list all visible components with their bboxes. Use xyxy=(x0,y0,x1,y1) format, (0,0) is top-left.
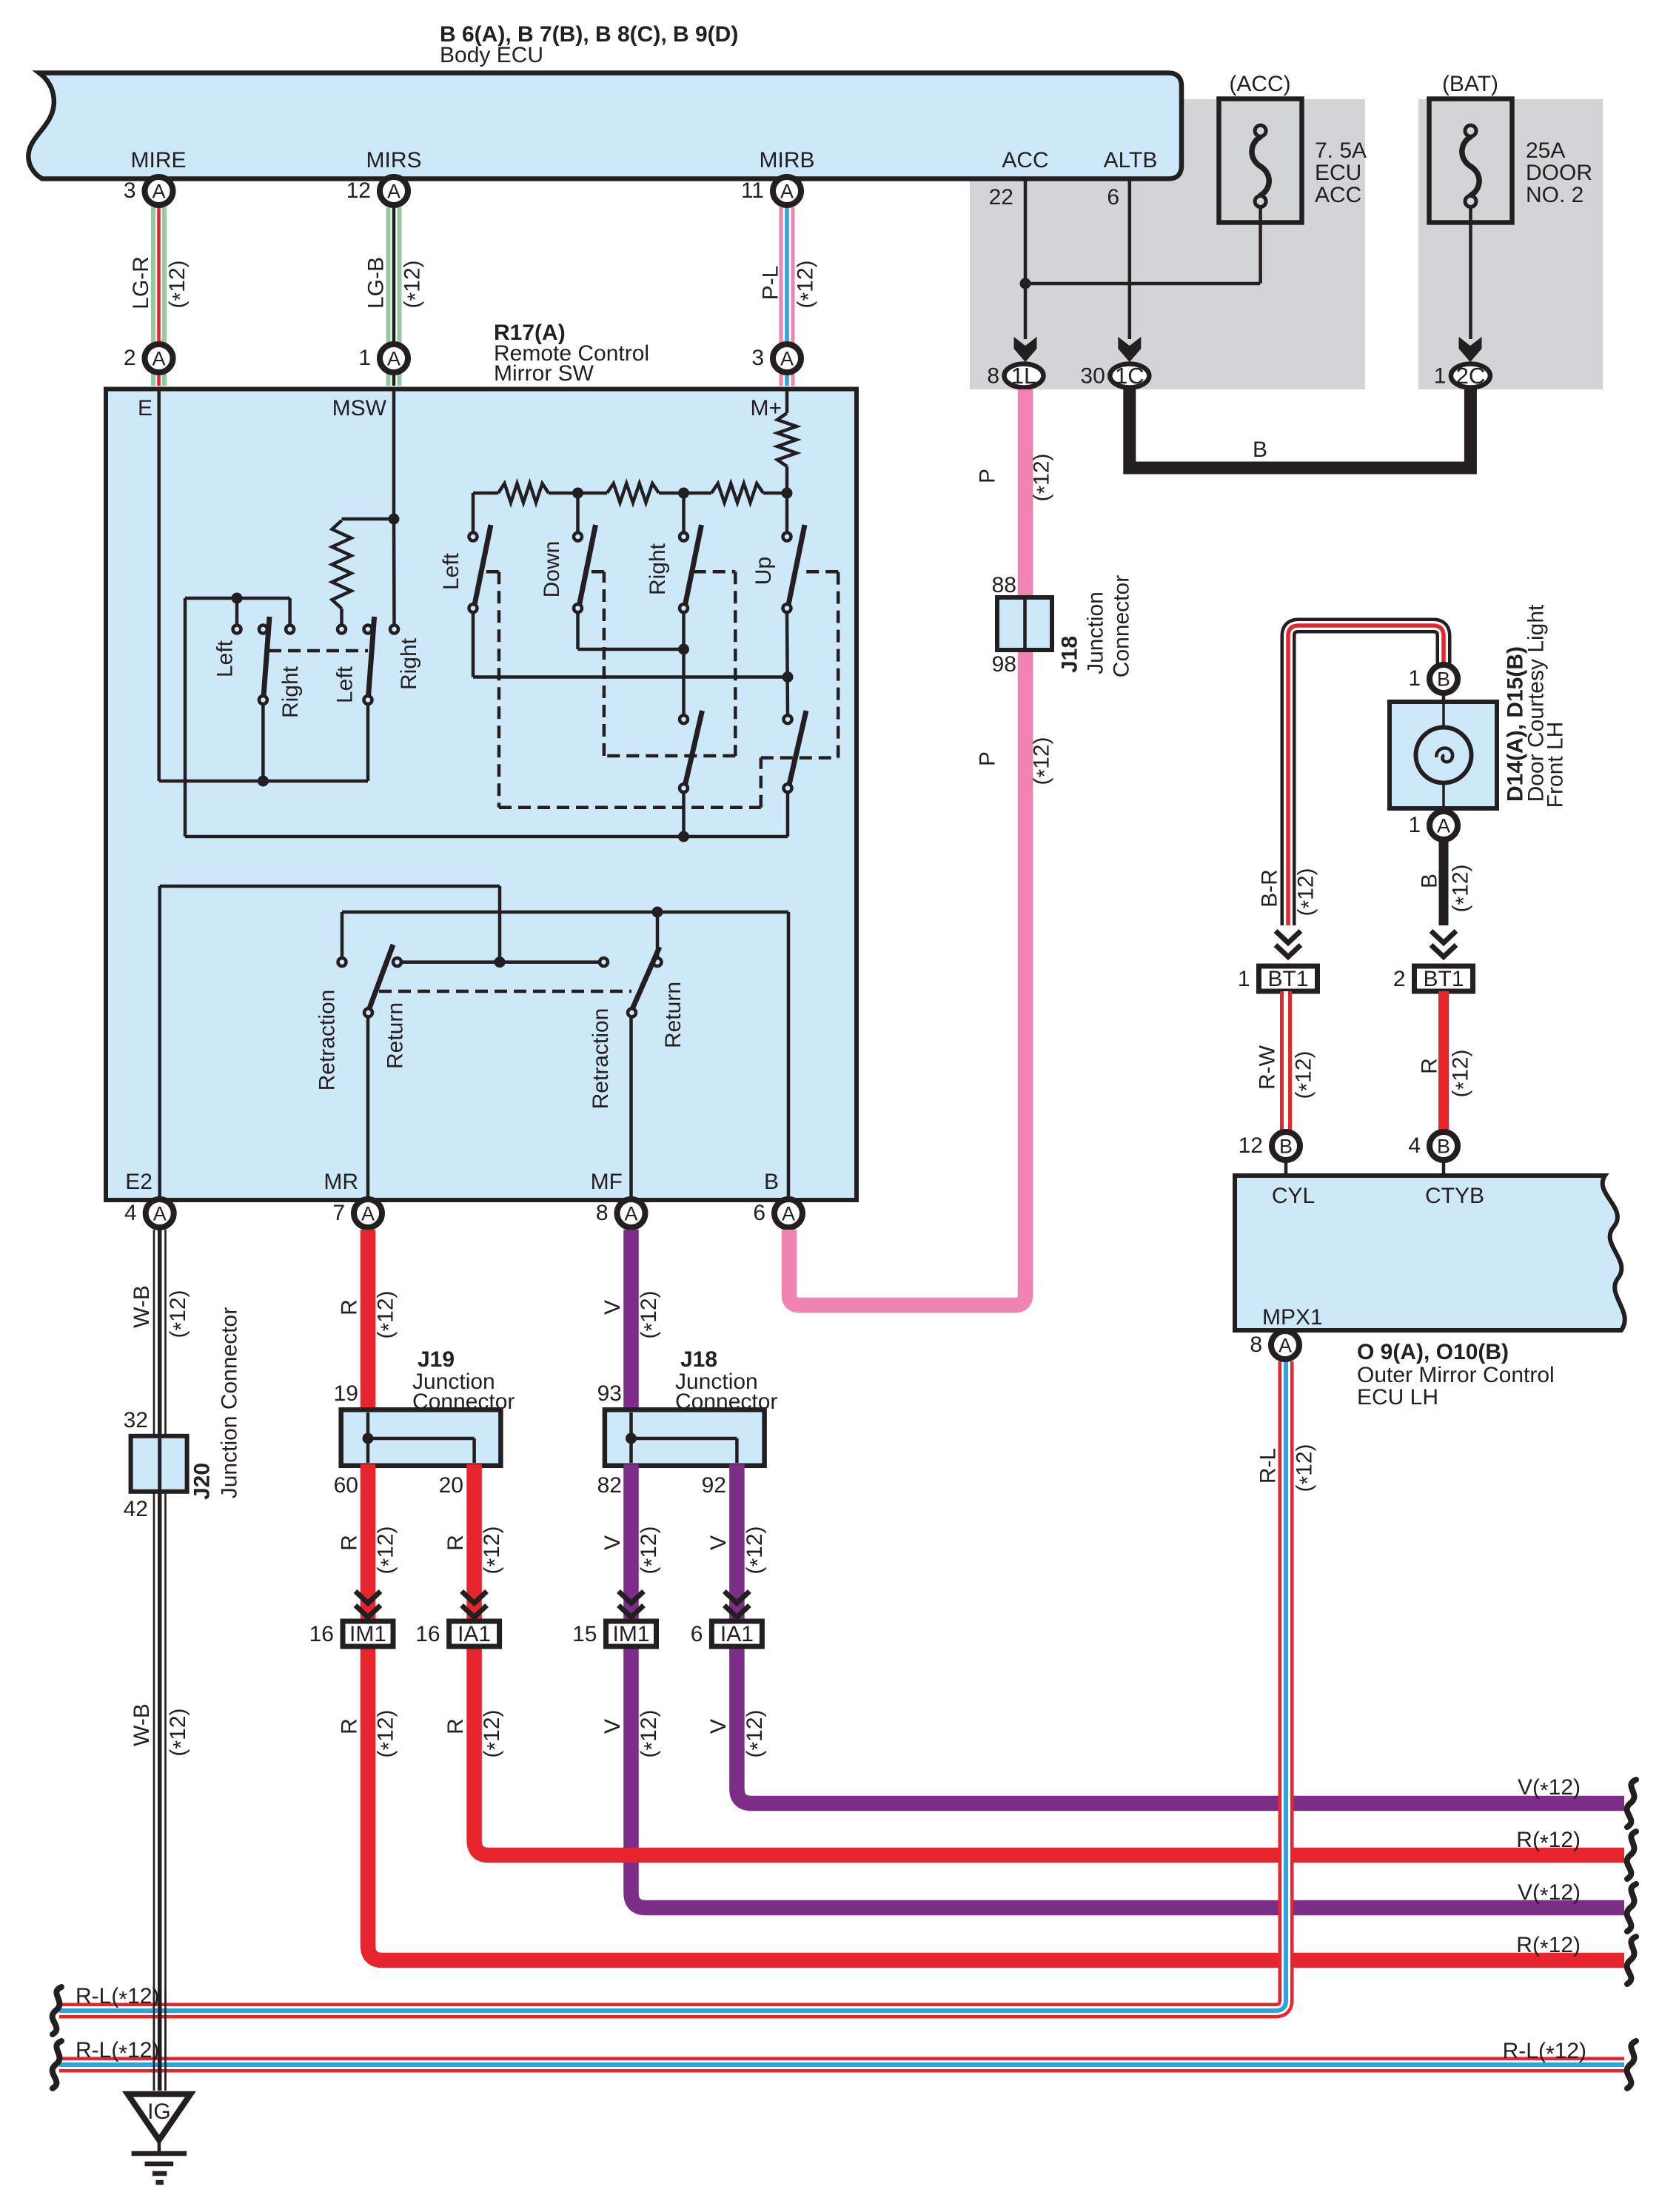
svg-text:Return: Return xyxy=(661,982,686,1048)
svg-text:MIRB: MIRB xyxy=(760,148,815,172)
svg-text:19: 19 xyxy=(334,1381,358,1406)
svg-text:A: A xyxy=(780,348,794,370)
stub Down xyxy=(576,493,580,532)
pin 11A MIRB xyxy=(773,177,801,205)
svg-text:IM1: IM1 xyxy=(612,1622,649,1646)
wire chain left xyxy=(473,492,498,495)
switch lower-2 (below Up) xyxy=(784,715,792,723)
svg-text:2: 2 xyxy=(1393,967,1406,991)
svg-text:R-L(*12): R-L(*12) xyxy=(76,2038,159,2066)
svg-text:V: V xyxy=(600,1535,625,1550)
svg-text:B: B xyxy=(1418,874,1442,888)
wire E internal xyxy=(157,389,161,781)
svg-text:(*12): (*12) xyxy=(794,260,822,308)
arrow into BT1-2 xyxy=(1431,931,1456,943)
svg-text:B: B xyxy=(1253,438,1267,462)
connector block Body ECU B6-B9 xyxy=(28,73,1182,179)
contact sel-6 xyxy=(390,626,398,634)
svg-text:A: A xyxy=(1278,1335,1292,1357)
svg-text:1: 1 xyxy=(1238,967,1250,991)
svg-text:(*12): (*12) xyxy=(165,260,193,308)
svg-text:Return: Return xyxy=(383,1002,408,1069)
svg-text:B: B xyxy=(1437,1136,1450,1158)
junction dot chain2 xyxy=(678,488,689,499)
svg-text:A: A xyxy=(780,181,794,203)
svg-text:1: 1 xyxy=(1408,666,1421,691)
svg-text:Junction: Junction xyxy=(1084,591,1108,674)
wire-end curl V-lower xyxy=(1627,1884,1636,1931)
wire ACC-fuse link xyxy=(1025,282,1260,286)
pin 1B (courtesy light) xyxy=(1430,665,1458,693)
wire-end curl V-top xyxy=(1627,1780,1636,1827)
svg-text:R: R xyxy=(1418,1058,1442,1074)
junction dot up-branch xyxy=(782,671,794,683)
junction dot ACC xyxy=(1020,278,1031,289)
svg-text:Front LH: Front LH xyxy=(1544,722,1568,808)
svg-text:E2: E2 xyxy=(125,1170,153,1194)
wire sel top rail xyxy=(185,597,290,600)
svg-text:7. 5A: 7. 5A xyxy=(1315,138,1367,163)
svg-text:42: 42 xyxy=(124,1497,148,1521)
control unit O9/O10 Outer Mirror Control ECU LH xyxy=(1235,1176,1625,1330)
switch block R17 Remote Control Mirror SW xyxy=(106,389,857,1201)
svg-text:B: B xyxy=(764,1170,779,1194)
svg-text:LG-B: LG-B xyxy=(364,257,389,309)
svg-text:7: 7 xyxy=(332,1201,345,1225)
switch Right xyxy=(680,533,688,541)
svg-text:MSW: MSW xyxy=(332,396,387,420)
svg-text:A: A xyxy=(152,348,165,370)
wire retraction top rail xyxy=(341,912,344,958)
resistor M+ xyxy=(777,413,797,466)
svg-text:M+: M+ xyxy=(750,396,782,420)
junction dot sel bus xyxy=(258,776,269,787)
terminal box IM1-16 xyxy=(343,1621,393,1646)
svg-text:(*12): (*12) xyxy=(1294,868,1322,916)
pin 1A (MSW) xyxy=(380,344,408,372)
svg-text:(ACC): (ACC) xyxy=(1229,72,1290,96)
svg-text:MPX1: MPX1 xyxy=(1262,1305,1323,1330)
wire P-L (MIRB to M+) xyxy=(780,207,795,386)
svg-text:Mirror SW: Mirror SW xyxy=(494,361,594,386)
svg-text:J20: J20 xyxy=(190,1463,215,1500)
svg-text:2C: 2C xyxy=(1456,363,1486,389)
svg-text:Outer Mirror Control: Outer Mirror Control xyxy=(1357,1363,1555,1387)
wire R (J19-20 through IA1-16 to right) xyxy=(475,1464,1624,1855)
mech link Left-staple xyxy=(486,570,499,574)
svg-text:20: 20 xyxy=(439,1473,463,1498)
svg-text:V(*12): V(*12) xyxy=(1518,1775,1581,1803)
svg-text:Right: Right xyxy=(278,666,303,718)
svg-text:V: V xyxy=(706,1535,731,1550)
wire Down-blade elbow xyxy=(576,612,580,649)
wire R (MR to J19) xyxy=(361,1230,376,1411)
pin 12A MIRS xyxy=(380,177,408,205)
svg-text:Left: Left xyxy=(439,552,463,590)
blade sel-R xyxy=(369,617,375,697)
resistor chain 3 xyxy=(711,483,763,503)
svg-text:2: 2 xyxy=(124,346,136,370)
svg-text:4: 4 xyxy=(124,1201,137,1225)
svg-text:A: A xyxy=(624,1203,637,1225)
wire BAT drop xyxy=(1469,207,1472,340)
svg-text:Connector: Connector xyxy=(675,1390,777,1414)
junction dot right-branch xyxy=(678,644,689,655)
svg-text:IA1: IA1 xyxy=(458,1622,491,1646)
gray panel (BAT DOOR-No2 fuse block) xyxy=(1418,99,1603,389)
fuse 7.5A ECU-ACC xyxy=(1219,99,1302,223)
svg-text:V: V xyxy=(600,1719,625,1734)
svg-text:P: P xyxy=(976,751,1000,766)
wire-end curl (R-L right) xyxy=(1627,2041,1636,2088)
wire R-W (BT1 to CYL) xyxy=(1280,991,1292,1130)
svg-text:ECU LH: ECU LH xyxy=(1357,1385,1438,1410)
svg-text:Down: Down xyxy=(540,541,564,598)
svg-text:DOOR: DOOR xyxy=(1526,161,1592,185)
junction dot chain1 xyxy=(572,488,583,499)
svg-text:A: A xyxy=(361,1203,375,1225)
terminal box IA1-6 xyxy=(711,1621,762,1646)
junction dot retraction bar xyxy=(495,956,506,968)
ground IG xyxy=(128,2094,191,2140)
svg-text:(*12): (*12) xyxy=(374,1290,402,1338)
wire-end curl (R-L left upper) xyxy=(53,1987,61,2034)
svg-text:6: 6 xyxy=(691,1622,703,1646)
pin 12B (CYL) xyxy=(1272,1132,1300,1160)
wire B (courtesy to BT1) xyxy=(1439,842,1449,926)
svg-text:(*12): (*12) xyxy=(166,1708,194,1756)
svg-text:(*12): (*12) xyxy=(480,1709,508,1757)
arrow into IM1-15 xyxy=(619,1592,644,1603)
svg-text:(*12): (*12) xyxy=(637,1290,665,1338)
svg-text:3: 3 xyxy=(751,346,764,370)
blade Retraction-Return 1 xyxy=(369,945,393,1008)
pin 3A (M+) xyxy=(773,344,801,372)
svg-text:R: R xyxy=(443,1535,468,1551)
svg-text:A: A xyxy=(387,348,401,370)
wire R (J19-60 through IM1-16 to right) xyxy=(368,1464,1624,1960)
pin 8A (MPX1) xyxy=(1271,1331,1299,1359)
wire lower1 to bus xyxy=(682,792,686,837)
svg-text:6: 6 xyxy=(1107,185,1119,210)
svg-text:E: E xyxy=(138,396,153,420)
resistor chain 2 xyxy=(607,483,659,503)
svg-text:12: 12 xyxy=(346,178,371,203)
junction dot sel rail xyxy=(232,593,243,604)
svg-text:ACC: ACC xyxy=(1315,183,1361,207)
svg-text:MIRS: MIRS xyxy=(366,148,422,172)
svg-text:R-L(*12): R-L(*12) xyxy=(1503,2039,1586,2067)
svg-text:8: 8 xyxy=(987,364,999,389)
svg-text:1: 1 xyxy=(1408,813,1421,837)
arrow into BT1-1 xyxy=(1276,931,1301,943)
svg-text:30: 30 xyxy=(1080,364,1105,389)
terminal box IA1-16 xyxy=(449,1621,500,1646)
svg-text:P-L: P-L xyxy=(759,266,783,301)
svg-text:Junction Connector: Junction Connector xyxy=(218,1307,242,1499)
svg-text:V: V xyxy=(706,1719,731,1734)
svg-text:V(*12): V(*12) xyxy=(1518,1880,1581,1908)
wire stub CYL xyxy=(1284,1162,1288,1177)
svg-text:6: 6 xyxy=(753,1201,765,1225)
wire-end curl R-upper xyxy=(1627,1831,1636,1879)
svg-text:R(*12): R(*12) xyxy=(1516,1933,1581,1961)
svg-text:A: A xyxy=(387,181,401,203)
svg-text:60: 60 xyxy=(334,1473,358,1498)
svg-text:(*12): (*12) xyxy=(1030,737,1058,785)
pin 2A (E) xyxy=(145,344,173,372)
svg-text:92: 92 xyxy=(702,1473,726,1498)
pin 1A (courtesy light) xyxy=(1430,811,1458,839)
wire R-L vertical overlay (over colored runs) xyxy=(1278,1361,1294,1999)
fuse 25A DOOR-No2 xyxy=(1430,99,1512,223)
pin 8A (MF) xyxy=(617,1199,646,1227)
pin 4B (CTYB) xyxy=(1430,1132,1458,1160)
junction connector J18 (lower) xyxy=(605,1410,765,1466)
svg-text:J18: J18 xyxy=(680,1347,717,1372)
wire stub CTYB xyxy=(1442,1162,1446,1177)
arrow into IA1-16 xyxy=(462,1592,487,1603)
svg-text:16: 16 xyxy=(415,1622,440,1646)
svg-text:(*12): (*12) xyxy=(1293,1444,1321,1492)
svg-text:B: B xyxy=(1437,668,1450,691)
terminal box BT1-2 xyxy=(1415,966,1473,991)
svg-text:ALTB: ALTB xyxy=(1104,148,1158,172)
svg-text:Right: Right xyxy=(397,637,421,690)
pin 6A (B) xyxy=(774,1199,802,1227)
wire B-R (pin1B loop to BT1) xyxy=(1288,626,1444,925)
wire ACC drop xyxy=(1024,179,1028,339)
svg-text:(*12): (*12) xyxy=(1292,1050,1320,1099)
svg-text:82: 82 xyxy=(597,1473,622,1498)
svg-text:(BAT): (BAT) xyxy=(1442,72,1498,96)
svg-text:R: R xyxy=(338,1535,362,1551)
junction connector J20 xyxy=(131,1436,187,1492)
contact sel-1 xyxy=(233,626,241,634)
svg-text:B: B xyxy=(1279,1136,1293,1158)
switch Left (mirror adjust) xyxy=(469,533,477,541)
stub Right xyxy=(682,493,686,532)
svg-text:Up: Up xyxy=(751,557,776,585)
svg-text:98: 98 xyxy=(992,652,1016,677)
svg-text:8: 8 xyxy=(596,1201,609,1225)
svg-text:(*12): (*12) xyxy=(401,260,429,308)
svg-text:R: R xyxy=(338,1299,362,1316)
stub Up xyxy=(785,493,789,532)
wire Left-blade to bus xyxy=(472,612,475,677)
svg-text:(*12): (*12) xyxy=(637,1709,665,1757)
wire R (BT1 to CTYB) xyxy=(1438,991,1449,1130)
svg-text:A: A xyxy=(153,1203,167,1225)
wire bus y1130 xyxy=(185,835,788,839)
svg-text:NO. 2: NO. 2 xyxy=(1526,183,1584,207)
svg-text:Connector: Connector xyxy=(412,1390,515,1414)
wire lower2 to bus xyxy=(786,792,790,837)
svg-text:(*12): (*12) xyxy=(743,1526,771,1574)
svg-text:(*12): (*12) xyxy=(374,1526,402,1574)
svg-text:15: 15 xyxy=(572,1622,597,1646)
svg-text:(*12): (*12) xyxy=(1449,864,1477,912)
svg-text:A: A xyxy=(1437,815,1450,837)
junction dot MSW xyxy=(389,514,400,525)
resistor chain 1 xyxy=(498,483,549,503)
svg-text:(*12): (*12) xyxy=(374,1709,402,1757)
pin 3A MIRE xyxy=(145,177,173,205)
svg-text:W-B: W-B xyxy=(130,1703,154,1746)
wire Up-blade down xyxy=(787,612,788,715)
svg-text:8: 8 xyxy=(1250,1333,1262,1357)
wire-end curl R-bottom xyxy=(1627,1937,1636,1984)
switch Down xyxy=(574,533,582,541)
wire MR internal xyxy=(366,1016,370,1200)
wire bus y914 xyxy=(473,675,788,679)
wire retr stub xyxy=(656,912,660,958)
svg-text:MIRE: MIRE xyxy=(131,148,187,172)
contact sel-5 xyxy=(364,626,372,634)
svg-text:P: P xyxy=(976,469,1000,483)
svg-text:A: A xyxy=(782,1203,795,1225)
wire ALTB drop xyxy=(1128,179,1132,339)
contact Retraction-1 xyxy=(338,958,346,966)
svg-text:B-R: B-R xyxy=(1258,869,1282,908)
svg-text:Body ECU: Body ECU xyxy=(440,43,543,67)
wire MSW internal xyxy=(392,389,396,519)
svg-text:MR: MR xyxy=(324,1170,358,1194)
svg-text:BT1: BT1 xyxy=(1267,967,1308,991)
svg-text:32: 32 xyxy=(124,1408,148,1432)
svg-text:CTYB: CTYB xyxy=(1425,1184,1484,1208)
svg-text:22: 22 xyxy=(989,185,1013,210)
junction dot chain3 (M+) xyxy=(782,488,793,499)
svg-text:J19: J19 xyxy=(418,1347,455,1372)
wire M+ internal xyxy=(785,389,789,413)
svg-text:1C: 1C xyxy=(1115,363,1145,389)
mech link Left-staple right xyxy=(760,758,763,808)
blade Retraction-Return 2 xyxy=(633,947,660,1008)
wire V (MF to J18) xyxy=(623,1230,639,1411)
svg-text:W-B: W-B xyxy=(130,1285,154,1328)
blade sel-L xyxy=(264,617,269,697)
wire B (1C to 2C) xyxy=(1130,389,1471,468)
svg-text:IM1: IM1 xyxy=(349,1622,386,1646)
terminal box IM1-15 xyxy=(606,1621,657,1646)
svg-text:Connector: Connector xyxy=(1110,575,1134,677)
arrow into 1C xyxy=(1118,337,1141,362)
wire sel-L down xyxy=(261,704,265,781)
wire R-L (MPX1 down and left) xyxy=(59,1361,1286,2011)
svg-text:ECU: ECU xyxy=(1315,161,1361,185)
svg-text:R: R xyxy=(443,1718,468,1735)
svg-text:Left: Left xyxy=(333,666,358,703)
gray panel (ACC ECU-ACC fuse block) xyxy=(970,99,1365,389)
mech link dashed (sel) xyxy=(269,649,368,653)
svg-text:LG-R: LG-R xyxy=(129,256,153,309)
svg-text:Retraction: Retraction xyxy=(589,1008,613,1110)
wire Right-blade down xyxy=(682,612,686,715)
svg-text:3: 3 xyxy=(124,178,136,203)
svg-text:CYL: CYL xyxy=(1272,1184,1315,1208)
terminal oval 2C xyxy=(1451,364,1490,388)
svg-text:V: V xyxy=(600,1300,625,1315)
svg-text:(*12): (*12) xyxy=(743,1709,771,1757)
svg-text:1L: 1L xyxy=(1011,363,1036,389)
wire V (J18-82 through IM1-15 to right) xyxy=(631,1464,1625,1908)
resistor MSW xyxy=(332,520,352,609)
svg-text:(*12): (*12) xyxy=(1030,453,1058,501)
pin 7A (MR) xyxy=(354,1199,382,1227)
contact sel-4 xyxy=(338,626,346,634)
mech link Right-staple xyxy=(694,570,736,574)
lamp D14/D15 Door Courtesy Light Front LH xyxy=(1390,702,1497,808)
svg-text:ACC: ACC xyxy=(1002,148,1048,172)
arrow into 1L xyxy=(1014,337,1037,362)
wire LG-R (MIRE to E) xyxy=(151,207,167,386)
junction dot bus1130 xyxy=(678,831,689,842)
wire MF internal xyxy=(629,1016,633,1200)
wire V (J18-92 through IA1-6 to right) xyxy=(737,1464,1624,1803)
junction connector J19 xyxy=(341,1410,501,1466)
terminal oval 1L xyxy=(1005,364,1044,388)
wire E2 internal xyxy=(158,886,161,1213)
svg-text:R-L: R-L xyxy=(1256,1448,1281,1484)
contact sel-2 xyxy=(259,626,267,634)
svg-text:11: 11 xyxy=(741,178,764,203)
svg-text:(*12): (*12) xyxy=(166,1290,194,1338)
arrow into IA1-6 xyxy=(724,1592,749,1603)
svg-text:(*12): (*12) xyxy=(480,1526,508,1574)
switch lower-1 (below Right) xyxy=(680,715,688,723)
svg-text:(*12): (*12) xyxy=(637,1526,665,1574)
svg-text:IA1: IA1 xyxy=(720,1622,754,1646)
retraction bar xyxy=(398,960,604,964)
wire R-L (lower full width) xyxy=(59,2057,1624,2073)
svg-text:Left: Left xyxy=(213,640,238,677)
svg-text:MF: MF xyxy=(591,1170,623,1194)
svg-text:16: 16 xyxy=(309,1622,334,1646)
svg-text:IG: IG xyxy=(147,2099,171,2124)
wire W-B (E2 to IG ground) xyxy=(153,1230,155,2091)
contact retr-2 top xyxy=(654,958,662,966)
junction dot retr rail xyxy=(652,907,663,918)
wire P (1L to B pin) xyxy=(789,389,1025,1305)
svg-text:88: 88 xyxy=(992,573,1016,597)
wire LG-B (MIRS to MSW) xyxy=(386,207,402,386)
svg-text:R-L(*12): R-L(*12) xyxy=(76,1984,159,2012)
arrow into IM1-16 xyxy=(355,1592,381,1603)
wire stub courtesy top xyxy=(1442,694,1446,703)
arrow into 2C xyxy=(1459,337,1482,362)
terminal oval 1C xyxy=(1110,364,1149,388)
svg-text:Right: Right xyxy=(646,543,670,595)
svg-text:O 9(A), O10(B): O 9(A), O10(B) xyxy=(1357,1340,1509,1364)
junction connector J18 (pink) xyxy=(997,597,1052,650)
svg-text:J18: J18 xyxy=(1058,636,1082,673)
svg-text:R-W: R-W xyxy=(1256,1045,1280,1090)
stub Left xyxy=(472,493,475,532)
switch Up xyxy=(783,533,791,541)
svg-text:BT1: BT1 xyxy=(1423,967,1464,991)
wire W-B overlay (over R-L) xyxy=(153,1991,155,2091)
contact sel-3 xyxy=(286,626,294,634)
mech link dashed (retraction) xyxy=(379,990,631,993)
svg-text:1: 1 xyxy=(1434,364,1447,389)
svg-text:(*12): (*12) xyxy=(1449,1049,1477,1097)
svg-text:R(*12): R(*12) xyxy=(1516,1828,1581,1856)
wire-end curl (R-L left lower) xyxy=(53,2041,61,2088)
svg-text:A: A xyxy=(152,181,165,203)
terminal box BT1-1 xyxy=(1259,966,1318,991)
svg-text:1: 1 xyxy=(358,346,371,370)
